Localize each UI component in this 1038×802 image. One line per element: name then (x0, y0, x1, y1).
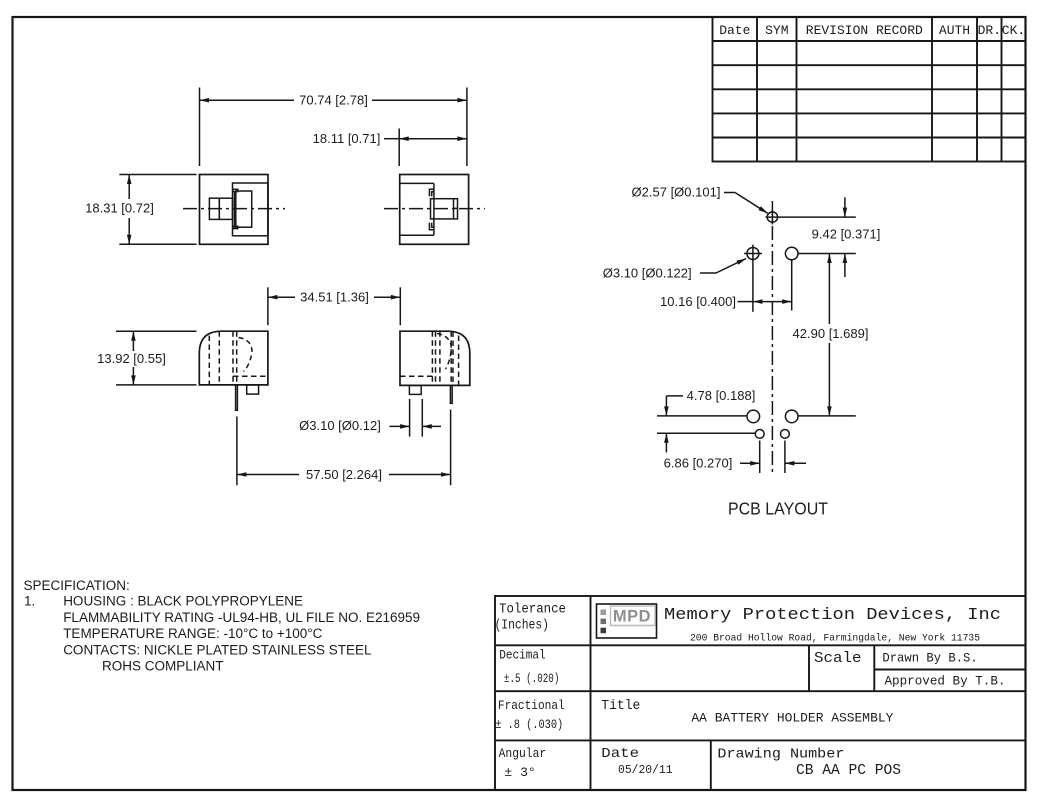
side view right: hidden bottom line (400, 375, 432, 377)
end view left: contact plate (236, 191, 252, 227)
side view left: pin (236, 385, 238, 410)
MPD logo square 3 (601, 628, 607, 634)
revision table frame (713, 17, 1026, 162)
title block scale cell right (873, 645, 875, 691)
svg-text:Ø2.57 [Ø0.101]: Ø2.57 [Ø0.101] (632, 185, 721, 200)
svg-text:Date: Date (719, 23, 750, 38)
svg-text:SPECIFICATION:: SPECIFICATION: (24, 578, 130, 593)
dim pin dia arrow left (390, 425, 410, 427)
hole H3 extension to 9.42/42.90 (798, 253, 856, 255)
svg-text:18.31 [0.72]: 18.31 [0.72] (85, 201, 154, 216)
svg-text:FLAMMABILITY RATING -UL94-HB,: FLAMMABILITY RATING -UL94-HB, UL FILE NO… (63, 610, 420, 625)
svg-text:PCB LAYOUT: PCB LAYOUT (728, 498, 828, 518)
svg-text:ROHS COMPLIANT: ROHS COMPLIANT (102, 659, 224, 674)
end view left: centerline (183, 208, 285, 210)
svg-text:CONTACTS: NICKLE PLATED STAINL: CONTACTS: NICKLE PLATED STAINLESS STEEL (63, 642, 372, 657)
svg-text:Title: Title (601, 698, 640, 714)
revision table column lines (756, 17, 758, 162)
side view right: solder tab (409, 385, 421, 394)
hole H1 cross horizontal / extension to 9.42 (766, 216, 856, 218)
dim 6.86 extension right (784, 441, 786, 474)
side view right: hidden line 4 (450, 331, 452, 385)
dim 57.50 line left (237, 474, 299, 476)
dim 34.51 extension right (399, 287, 401, 325)
leader H1 arrow (735, 193, 768, 214)
MPD logo box (597, 604, 657, 638)
dim 70.74 line right (372, 99, 467, 101)
end view right: contact inner line (453, 199, 455, 219)
MPD logo square 1 (601, 610, 607, 616)
side view left: hidden line 4 (236, 331, 238, 385)
side view right: hidden line 1 (431, 331, 433, 385)
end view right: recess top (400, 182, 434, 184)
title block scale cell left (808, 645, 810, 691)
side view left: spring hidden curve (239, 338, 252, 372)
dim 9.42 bottom arrow (844, 254, 846, 278)
side view left: hidden line 1 (208, 336, 210, 385)
dim 6.86 extension left (759, 441, 761, 474)
side view right: hidden line 2 (435, 331, 437, 385)
title block drawn/approved divider (874, 669, 1025, 671)
dim 70.74 line left (200, 99, 295, 101)
svg-text:13.92 [0.55]: 13.92 [0.55] (97, 351, 166, 366)
leader H2 arrow (716, 259, 746, 273)
dim pin dia extension left (409, 399, 411, 437)
svg-text:DR.: DR. (978, 23, 1001, 38)
title block frame (495, 596, 1026, 790)
side view right: body outline (400, 331, 470, 385)
end view left: recess (233, 183, 268, 236)
svg-text:± 3°: ± 3° (504, 765, 535, 780)
dim 18.31 line down (128, 218, 130, 244)
end view right: contact inner step (454, 207, 458, 209)
side view left: hidden line 3 (232, 331, 234, 385)
svg-text:34.51 [1.36]: 34.51 [1.36] (300, 290, 369, 305)
side view right: pin (450, 385, 452, 403)
svg-text:SYM: SYM (765, 23, 788, 38)
svg-text:200 Broad Hollow Road, Farming: 200 Broad Hollow Road, Farmingdale, New … (690, 633, 980, 645)
svg-text:9.42 [0.371]: 9.42 [0.371] (812, 227, 881, 242)
dim 4.78 bracket (666, 395, 683, 397)
svg-text:(Inches): (Inches) (495, 617, 550, 633)
svg-text:Angular: Angular (499, 746, 547, 761)
pcb row4 line (657, 432, 755, 434)
svg-text:Drawing Number: Drawing Number (717, 746, 844, 762)
dim 10.16 line (753, 301, 792, 303)
dim 9.42 top arrow (844, 197, 846, 217)
MPD logo square 2 (601, 619, 607, 625)
svg-text:1.: 1. (24, 594, 35, 609)
hole H2 circle (747, 248, 759, 260)
svg-text:Scale: Scale (814, 650, 862, 667)
dim 18.31 extension top (119, 174, 196, 176)
dim 18.11 line (399, 138, 467, 140)
svg-text:MPD: MPD (613, 608, 651, 626)
dim 13.92 extension top (116, 330, 197, 332)
side view right: spring hidden curve (437, 334, 451, 370)
end view right: recess bottom (400, 234, 434, 236)
end view left: button inner (219, 198, 232, 219)
MPD logo underline (611, 625, 654, 627)
dim 42.90 line up (828, 254, 830, 325)
svg-text:CK.: CK. (1002, 23, 1025, 38)
svg-text:TEMPERATURE RANGE: -10°C to +1: TEMPERATURE RANGE: -10°C to +100°C (63, 626, 322, 641)
dim 57.50 line right (389, 474, 451, 476)
title block row line under title row (495, 739, 1026, 741)
hole H2 cross horizontal (744, 253, 762, 255)
end view right: bottom hook (429, 223, 434, 230)
svg-text:Memory Protection Devices, Inc: Memory Protection Devices, Inc (664, 606, 1001, 625)
svg-text:Date: Date (601, 746, 639, 762)
end view left: top notch (233, 189, 238, 191)
dim 10.16 extension right (791, 260, 793, 311)
title block row line under decimal row (495, 690, 1026, 692)
svg-text:CB AA PC POS: CB AA PC POS (796, 762, 901, 779)
dim 34.51 line right (374, 296, 400, 298)
svg-text:Ø3.10 [Ø0.12]: Ø3.10 [Ø0.12] (299, 418, 381, 433)
dim 13.92 line down (132, 367, 134, 385)
hole H7 circle (781, 430, 790, 439)
svg-text:Decimal: Decimal (499, 648, 546, 663)
svg-text:57.50 [2.264]: 57.50 [2.264] (306, 467, 382, 482)
side view left: hidden bottom line (233, 375, 268, 377)
dim pin dia arrow right (422, 425, 441, 427)
hole H4 circle (747, 410, 760, 423)
dim 18.31 line up (128, 175, 130, 200)
dim pin dia extension right (421, 399, 423, 437)
side view left: hidden line 2 (218, 331, 220, 385)
dim 10.16 extension left (752, 263, 754, 312)
svg-text:6.86 [0.270]: 6.86 [0.270] (664, 456, 733, 471)
svg-text:18.11 [0.71]: 18.11 [0.71] (313, 131, 381, 146)
side view right: hidden line 5 (452, 332, 454, 386)
title block row line under logo row (495, 644, 1026, 646)
title block date cell divider (710, 740, 712, 790)
side view left: body outline (199, 331, 268, 385)
dim 18.11 stub (384, 138, 399, 140)
end view right: contact (431, 199, 458, 219)
leader H1 stub (724, 192, 735, 194)
svg-text:± .8 (.030): ± .8 (.030) (495, 717, 563, 732)
dim 6.86 arrow left (740, 462, 760, 464)
dim 6.86 arrow right (785, 462, 806, 464)
svg-text:10.16 [0.400]: 10.16 [0.400] (660, 294, 736, 309)
hole H6 circle (755, 430, 764, 439)
dim 18.11 extension (398, 129, 400, 167)
dim 70.74 extension left (199, 88, 201, 167)
dim 57.50 extension left (236, 417, 238, 486)
svg-text:HOUSING : BLACK POLYPROPYLENE: HOUSING : BLACK POLYPROPYLENE (63, 594, 303, 609)
svg-text:Tolerance: Tolerance (499, 602, 566, 618)
svg-text:Approved By T.B.: Approved By T.B. (885, 674, 1006, 689)
revision table row lines (713, 40, 1026, 42)
end view left: bottom notch (233, 226, 238, 228)
dim 34.51 extension left (267, 287, 269, 325)
MPD logo letter frame (611, 606, 656, 626)
hole H1 cross vertical (771, 210, 773, 225)
svg-text:42.90 [1.689]: 42.90 [1.689] (793, 326, 869, 341)
svg-text:05/20/11: 05/20/11 (618, 763, 673, 777)
dim 4.78 up arrow (665, 433, 667, 452)
dim 57.50 extension right (450, 410, 452, 486)
svg-text:AA BATTERY HOLDER ASSEMBLY: AA BATTERY HOLDER ASSEMBLY (691, 711, 893, 726)
svg-text:4.78 [0.188]: 4.78 [0.188] (687, 388, 756, 403)
pcb row3 line left (657, 415, 747, 417)
side view left: solder tab (247, 385, 259, 394)
end view right: housing outline (400, 175, 469, 245)
svg-text:REVISION RECORD: REVISION RECORD (806, 23, 923, 38)
dim 13.92 line up (132, 331, 134, 351)
leader H2 stub (700, 272, 716, 274)
dim 34.51 line left (268, 296, 295, 298)
dim 13.92 extension bottom (116, 384, 197, 386)
dim 4.78 down arrow (665, 396, 667, 416)
dim 42.90 line down (828, 343, 830, 416)
hole H3 circle (785, 247, 798, 260)
title block left column divider (590, 596, 592, 790)
hole H1 circle (767, 212, 777, 222)
svg-text:Fractional: Fractional (498, 698, 565, 713)
dim 18.31 extension bottom (119, 243, 196, 245)
hole H5 circle (785, 410, 798, 423)
end view right: centerline (384, 208, 485, 210)
end view right: top hook (429, 189, 434, 196)
svg-text:Ø3.10 [Ø0.122]: Ø3.10 [Ø0.122] (603, 266, 692, 281)
hole H2 cross vertical (752, 245, 754, 263)
svg-text:Drawn By B.S.: Drawn By B.S. (882, 651, 977, 666)
dim 10.16 stub (738, 301, 753, 303)
end view left: button outer (209, 198, 219, 219)
end view left: contact plate edge (234, 191, 236, 228)
side view right: hidden line 6 (458, 336, 460, 386)
side view right: hidden line 3 (439, 331, 441, 385)
svg-text:AUTH: AUTH (939, 23, 970, 38)
pcb row3 line right (798, 415, 856, 417)
end view right: recess right wall (433, 183, 435, 235)
end view left: housing outline (200, 175, 269, 245)
pcb centerline (771, 201, 773, 474)
svg-text:±.5 (.020): ±.5 (.020) (504, 671, 560, 686)
svg-text:70.74 [2.78]: 70.74 [2.78] (299, 93, 368, 108)
dim 70.74 extension right (466, 88, 468, 167)
